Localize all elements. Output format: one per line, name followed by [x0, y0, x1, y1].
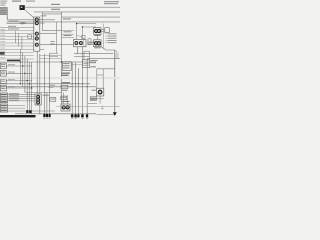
mid band wire y53.7 [74, 53, 113, 55]
wire drop to relay K5 coil2 [82, 27, 96, 39]
diagonal wire from K4 [101, 47, 115, 50]
label under K3 [94, 35, 101, 36]
junction dots [20, 23, 88, 89]
fuse list box lower-left B [0, 104, 7, 112]
switch S3 box [0, 78, 6, 84]
wires from fuse box B [8, 106, 56, 111]
label right of box [69, 85, 72, 88]
wire y55.3 [40, 54, 62, 56]
label text in box [62, 85, 67, 88]
relay K2 coil a [35, 32, 38, 35]
main riser x61.4 [60, 12, 62, 104]
dark tag left edge [0, 52, 5, 55]
small box right of K6 [50, 97, 56, 101]
label box left of K2 [28, 35, 32, 39]
table text rows [64, 31, 72, 36]
wire y49.6 [40, 49, 44, 51]
wire table to ECU box [71, 64, 83, 66]
ECU box text [84, 62, 89, 65]
stacked boxes right-center [84, 51, 90, 60]
switch S4 box [0, 85, 6, 91]
label wire y27.5 [8, 26, 16, 27]
wire y23.3 with inline connector [7, 23, 34, 25]
riser x15.5 [15, 31, 17, 43]
relay K1 coil a [35, 18, 38, 21]
wire y58.3 [40, 57, 62, 59]
left junction risers [20, 49, 31, 114]
fuse list box lower-left A [0, 93, 7, 103]
wire y58.7 right [87, 58, 120, 60]
relay K8 bottom-right [97, 88, 104, 96]
bus y83.8 [0, 83, 90, 85]
center vertical risers to bottom row [37, 47, 87, 114]
riser x21.9 [21, 37, 23, 50]
pin number ticks [44, 118, 88, 119]
riser x56.5 [56, 22, 58, 54]
wire bus y17 [61, 16, 120, 18]
label in small box [51, 98, 55, 101]
label above bus y12 [51, 9, 60, 10]
wire labels left bundle [0, 29, 5, 58]
right-center labels [90, 60, 97, 67]
label left of K8 [92, 90, 96, 91]
text in small box [62, 96, 66, 99]
coil centers [35, 19, 38, 45]
small box above K5 [82, 35, 85, 38]
note text top-right [104, 1, 119, 4]
wire y27.5 [0, 27, 34, 29]
wire bus y12 [34, 11, 120, 13]
bold label row y60 [7, 60, 20, 62]
relay K6 bottom-left [35, 94, 41, 105]
S2 text [1, 71, 5, 74]
label below bus y17 [63, 18, 71, 19]
text row under box [62, 90, 68, 91]
connector table box center [62, 62, 71, 71]
label wire y19.8 [9, 20, 19, 23]
speck under tick [101, 107, 104, 110]
S1 text [1, 63, 5, 66]
wire bus y7 [25, 6, 120, 8]
ground symbol right [113, 112, 117, 116]
wire drop to relay K5 coil1 [77, 24, 96, 40]
wire color list right [108, 33, 117, 43]
S4 wire label [8, 85, 15, 88]
text row x48 y87 [49, 86, 54, 89]
wire y30.7 center segment [42, 30, 61, 32]
bottom connector pins group2 [71, 114, 88, 117]
splice blobs above bar [26, 110, 28, 113]
small box lower center [61, 96, 67, 99]
wire labels near K5 feed [51, 41, 55, 42]
text rows lower center [62, 82, 70, 83]
right area wires [88, 69, 115, 115]
wire y13.9 [42, 13, 61, 15]
relay K2 coil c [35, 43, 38, 46]
text near band x49 [49, 85, 55, 86]
wire from K2 to center relay [40, 44, 74, 46]
bracket ticks for list [105, 34, 107, 43]
wire from S1 [6, 65, 31, 67]
label box center column [61, 85, 68, 88]
link K3 to K4 [96, 34, 98, 40]
S4 text [1, 85, 5, 88]
side box left of K4 [88, 39, 91, 45]
label above y55.3 [49, 52, 58, 55]
bus y62 [0, 61, 96, 63]
K8 drop wire [99, 96, 101, 104]
wire from S3 [6, 80, 31, 82]
S3 wire label [8, 78, 15, 81]
label right of K1 top [41, 15, 47, 16]
wire y19.8 from fuse box [7, 19, 55, 21]
text row y101 [62, 101, 70, 102]
wire from S4 [6, 87, 31, 89]
wire bus y22 [7, 21, 121, 23]
label row above bundle [8, 29, 19, 30]
relay stack K1 housing [34, 17, 40, 51]
relay K1 coil b [35, 22, 38, 25]
switch S1 box [0, 63, 6, 69]
connector table center [61, 30, 74, 37]
bottom connector pins group1 [43, 114, 50, 117]
riser x18.7 [18, 33, 20, 46]
wire K2 to riser [40, 33, 57, 35]
link to small box [77, 35, 82, 37]
relay K2 coil b [35, 37, 38, 40]
connector box right of K3 [105, 28, 110, 33]
wire stub x42.4 [41, 12, 43, 31]
relay K4 right lower [94, 40, 101, 47]
label above y58.3 [49, 55, 58, 58]
wire stub K1b right [40, 22, 45, 24]
label right of K6 [43, 95, 50, 96]
wire stub K1 right [40, 19, 45, 21]
wire curve into relay stack [25, 10, 34, 18]
bottom rail y113.8 [15, 113, 96, 115]
relay K5 center [74, 39, 87, 46]
title text top-left [0, 0, 21, 5]
K7 feed risers [64, 93, 68, 105]
fuse box F1 top-left [0, 7, 7, 20]
relay K7 bottom-center [61, 104, 70, 111]
right riser x116 [115, 50, 117, 59]
background sheet [0, 0, 120, 120]
label below bus y22 [19, 22, 27, 25]
wires from fuse box A [8, 94, 36, 101]
label above bus y7 [51, 4, 60, 5]
wire y92.5 [25, 92, 62, 94]
S2 wire label [8, 71, 15, 74]
wire labels from fuse box A [9, 93, 19, 101]
relay K3 right top [94, 28, 101, 35]
long grey wire y106.5 [56, 106, 120, 108]
mid band wire y56.7 [74, 56, 90, 58]
switch S2 box [0, 71, 6, 77]
left wire bundle to junction block [0, 31, 34, 59]
right riser x118 [117, 53, 119, 59]
connector C1 top feed [20, 5, 25, 10]
ground bus bar bottom-left [0, 115, 36, 117]
wire from S2 [6, 72, 31, 74]
tick on y106.5 [101, 106, 103, 108]
bus y86.8 [0, 86, 96, 88]
grey scan band [0, 77, 120, 79]
label under K4 [94, 47, 101, 48]
ECU box [83, 60, 90, 68]
text rows under table [62, 73, 71, 76]
main right riser to ground [114, 50, 116, 112]
S1 wire label [8, 63, 15, 66]
S3 text [1, 78, 5, 81]
bracket box under K8 [90, 97, 96, 101]
label right of K5 [87, 42, 94, 43]
bracket wires to connector [101, 24, 105, 49]
note text above connector [26, 1, 35, 2]
